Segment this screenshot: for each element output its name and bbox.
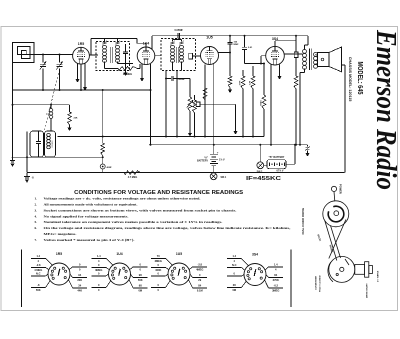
oscillator primary winding [49,109,53,112]
svg-text:1.4: 1.4 [274,263,278,267]
wire left frame down [12,63,14,91]
1U4 lead 0 [106,281,111,288]
1U5 lead 0 [166,268,169,270]
1U5 lead -2.8 right [189,267,192,270]
svg-text:7.: 7. [35,238,38,242]
T1 primary bottom [104,62,106,69]
svg-text:“B” BATTERY: “B” BATTERY [269,156,285,159]
3S4 lead N.C [242,268,245,271]
1U4 lead 0 right [130,267,133,270]
T2 coupling capacitor square [189,53,193,59]
resistor 3.3MEG [105,67,119,69]
wire antenna to V1 grid [34,54,73,56]
V3 diode lead to cap 100MMF [218,52,230,54]
1U4 lead 0 [106,268,109,270]
ground below 22K [67,128,71,132]
wire B battery to bus2 [286,163,295,165]
tube socket 1R5 bottom view [48,263,70,285]
resistor 10MEG on V3 drop [203,88,207,100]
svg-text:MMF: MMF [234,44,240,46]
svg-text:FULLY CLOSED: FULLY CLOSED [320,275,322,292]
svg-text:0.002MF: 0.002MF [177,79,186,81]
svg-text:-2.8: -2.8 [198,263,203,267]
svg-text:Nominal tolerance on component: Nominal tolerance on component valves ma… [44,220,223,224]
svg-text:3S4: 3S4 [272,37,278,41]
resistor tone [294,76,298,89]
pot wiper box [196,102,200,107]
tube socket 1U4 bottom view [109,263,131,285]
tube V2 1U4 IF amplifier [137,47,155,65]
bus2 right end trimmer to ground [307,145,309,147]
T2 primary winding [170,46,174,49]
wire grid V4 from cap 0.01 [245,63,265,65]
socket panel left rule [21,250,23,308]
3S4 lead -0.2 right [265,280,269,288]
speaker LS1 [316,54,318,57]
socket panel right rule [290,250,292,308]
bus wire y136 [58,136,265,138]
T2 primary trimmer [171,41,175,43]
tuning gang section C1B [59,55,61,63]
1U5 lead 84 right [189,280,193,289]
svg-text:1R5: 1R5 [56,252,62,256]
wire left frame lower [12,90,14,157]
svg-text:4.7 MEG: 4.7 MEG [128,176,138,179]
svg-text:CHASSIS MODEL: 120115: CHASSIS MODEL: 120115 [348,57,352,102]
T3 top feed [304,45,306,50]
ground below T1 cap [123,73,127,77]
electrolytic capacitor [102,156,104,165]
svg-text:SW-2: SW-2 [257,172,263,174]
svg-text:1U5: 1U5 [176,252,182,256]
3S4 lead 1.4 [242,259,249,266]
T3 secondary [314,53,318,57]
B+ top wire [152,35,308,37]
svg-text:470K: 470K [239,80,242,85]
T1 top feed wires [104,38,106,41]
1U4 lead 98 right [129,280,133,289]
1U5 lead 70 [166,259,173,266]
T3 primary bottom return [304,69,306,73]
T1 primary winding [102,46,106,49]
V2 plate to T2 [155,55,161,57]
wiper wire to ground drop [200,103,236,105]
T3 core lines [308,49,310,71]
1R5 lead 1.4 [46,259,53,266]
V4 filament drops [270,65,272,145]
T1 secondary winding [115,46,119,49]
V4 screen riser [274,41,276,47]
resistor 22K oscillator grid [69,105,71,112]
svg-text:IF=455KC: IF=455KC [246,176,282,182]
svg-text:Voltage readings are ÷ dc. vol: Voltage readings are ÷ dc. volts, resist… [44,197,201,201]
oscillator box right with winding [45,131,56,157]
V4 grid cap square [295,41,297,52]
svg-text:SW-1: SW-1 [221,177,227,179]
output transformer T3 primary [303,50,307,54]
1R5 lead N.C [46,274,49,276]
ground at left frame bottom [12,157,14,160]
chassis ground symbol [26,173,28,176]
T2 bottoms drops [172,62,174,71]
T2 top feeds [172,40,174,42]
V2 top plate elbow [145,43,147,47]
bus wire y157 [12,156,103,158]
svg-text:0M: 0M [138,289,142,293]
right frame wire [344,65,346,173]
svg-text:4.: 4. [35,214,38,218]
V1 plate lead right [89,54,98,56]
svg-text:1U4: 1U4 [116,252,122,256]
1R5 lead 0 right [69,267,72,270]
svg-text:1U5: 1U5 [206,36,212,40]
loop antenna L1 [13,43,35,63]
wire caps top cluster [243,69,253,71]
3S4 lead 84 right [266,275,269,278]
svg-text:1.4: 1.4 [232,254,236,258]
V1 pin lead left [72,54,74,56]
on-off switch SW-1 [210,173,217,180]
bus wire y145 [149,144,308,146]
wire T2 drop left [165,71,167,137]
V3 filament drops [204,64,206,136]
svg-text:22K: 22K [74,118,78,120]
resistor 1MEG vertical [262,95,266,110]
svg-text:0.05MF: 0.05MF [174,29,183,32]
T2 secondary winding [179,46,183,49]
wire osc left vertical [26,132,28,173]
oscillator secondary winding [47,133,51,136]
svg-text:POWER: POWER [339,184,343,194]
svg-text:MODEL: 645: MODEL: 645 [356,62,363,95]
svg-text:4 MEG: 4 MEG [34,268,42,272]
1R5 lead -8 [46,281,51,288]
T1 primary trimmer [103,41,107,43]
wire osc top bus [13,104,70,106]
tuning gang section C1A [42,55,44,63]
dial cord drive diagram group [323,186,373,282]
svg-text:1.4: 1.4 [97,254,101,258]
cap 0.01 column [244,36,246,47]
svg-text:40MF: 40MF [107,166,113,169]
svg-text:4MEG: 4MEG [196,268,203,272]
diode load resistor to ground [229,53,231,77]
svg-text:3MEG: 3MEG [272,289,279,293]
1U4 lead 0 [106,274,109,276]
V2 cathode drop long [150,64,152,145]
B battery 67.5V [264,164,267,166]
tube V3 1U5 detector [201,47,219,65]
1U4 lead 1.4 [106,259,113,266]
coupling capacitor 0.05MF [177,33,179,38]
svg-text:2.: 2. [35,203,38,207]
svg-text:CONDENSER: CONDENSER [316,276,318,290]
svg-text:0M: 0M [232,288,236,292]
1R5 lead 34 right [69,280,73,289]
svg-text:20K: 20K [77,278,82,282]
svg-text:All measurements made with vol: All measurements made with voltohmyst or… [44,203,138,207]
T1 secondary bottom to V2 grid [117,62,119,64]
resistor 2.2MEG vertical [251,76,255,89]
wire osc top [50,105,52,109]
svg-text:400K: 400K [155,268,161,272]
V2 screen riser to B+ line [151,36,153,49]
svg-text:DRIVE SHAFT: DRIVE SHAFT [366,283,369,298]
svg-text:50K: 50K [138,278,143,282]
svg-text:-0.2: -0.2 [274,284,279,288]
svg-text:-2.8: -2.8 [36,263,41,267]
svg-text:Socket connections are shown a: Socket connections are shown as bottom v… [44,208,237,212]
svg-text:Emerson Radio: Emerson Radio [370,29,400,190]
svg-text:50K: 50K [36,288,41,292]
resistor 470K vertical [242,53,244,77]
gang ganged dashed link [45,70,60,131]
svg-text:1.: 1. [35,197,38,201]
wire T2 drop right [176,71,178,137]
filter resistor [101,143,105,156]
svg-text:MEG= megohms.: MEG= megohms. [44,232,77,236]
V1 filament lead and ground [77,64,79,79]
svg-text:6.: 6. [35,226,38,230]
svg-text:2.2M: 2.2M [250,80,252,85]
3S4 lead 28 [242,281,247,287]
V4 plate to output transformer [284,53,302,55]
svg-text:N.C: N.C [232,263,237,267]
svg-text:On the voltage and resistance: On the voltage and resistance diagram, r… [44,226,291,230]
svg-text:5.: 5. [35,220,38,224]
1U4 lead 98 right [131,274,134,278]
tube socket 3S4 bottom view [244,264,266,286]
tube V1 1R5 converter [73,47,90,64]
T1 internal capacitor [125,44,127,52]
volume control potentiometer [189,112,191,133]
svg-text:44K: 44K [77,289,82,293]
svg-text:67½ V: 67½ V [277,169,284,173]
1R5 lead -2.8 [46,268,49,270]
svg-text:N.C: N.C [36,272,41,276]
wire osc mid [50,119,52,131]
AVC bus wire [13,89,151,91]
padder capacitor [36,141,41,143]
tube socket 1U5 bottom view [168,263,190,285]
svg-text:1R5: 1R5 [78,42,84,46]
T2 secondary trimmer [180,41,184,43]
resistor 4.7MEG in bus [124,171,141,175]
IF transformer T2 dashed box [161,39,196,71]
svg-text:3S4: 3S4 [252,253,258,257]
T2 core lines [175,47,177,63]
svg-text:1½ V: 1½ V [219,158,225,162]
AVC filter drop [102,90,104,143]
svg-text:0.1M: 0.1M [197,289,203,293]
oscillator box left with padder [30,131,44,157]
svg-text:Valves marked * measured to pi: Valves marked * measured to pin 4 of V-4… [44,238,135,242]
tube V4 3S4 output [266,46,285,65]
wire into grid cap [295,46,297,53]
V2 filament lead ground [141,64,143,78]
3S4 lead 0 [242,275,245,277]
1U5 lead 0 right [190,274,193,278]
1R5 lead 94 right [70,274,73,278]
svg-text:BATTERY: BATTERY [197,160,208,163]
V1 cathode lead and ground [84,63,86,87]
svg-text:370K: 370K [273,278,279,282]
svg-text:3.: 3. [35,208,38,212]
svg-text:031603: 031603 [52,140,54,148]
svg-text:DIAL CORD DRIVE: DIAL CORD DRIVE [301,208,305,235]
bus wire y173 [27,172,345,174]
3S4 lead 1.4 right [265,267,268,270]
svg-text:1MEG: 1MEG [261,100,263,106]
T1 core lines [109,47,111,63]
resistor 470K right of pot [193,100,197,113]
svg-text:CONDITIONS FOR VOLTAGE AND RES: CONDITIONS FOR VOLTAGE AND RESISTANCE RE… [74,190,244,196]
svg-text:+: + [217,151,219,155]
V1 grid lead to AVC bus [80,64,82,90]
svg-text:3.3MEG: 3.3MEG [123,73,132,76]
1U5 lead 0 [166,281,171,288]
on-off switch SW-2 [259,145,261,162]
A battery [213,145,215,154]
T1 secondary trimmer [116,41,120,43]
svg-text:No signal applied for voltage: No signal applied for voltage measuremen… [44,214,129,218]
capacitor 0.002MF [170,76,172,81]
svg-text:3MEG: 3MEG [155,259,162,263]
svg-text:1.4: 1.4 [36,254,40,258]
1U5 lead 0 [166,274,169,276]
svg-text:3MEG: 3MEG [95,268,102,272]
IF transformer T1 dashed box [96,42,130,71]
